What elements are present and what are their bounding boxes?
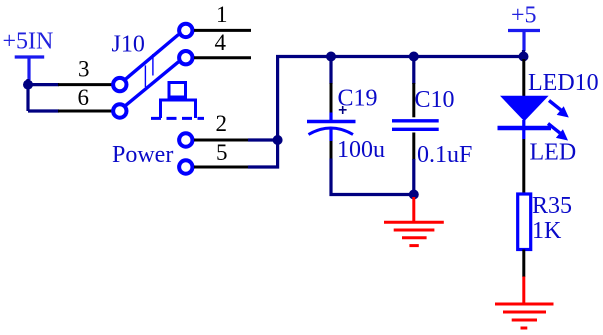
- svg-text:J10: J10: [112, 32, 145, 58]
- power bar symbol +5IN: [15, 57, 45, 80]
- svg-text:C19: C19: [338, 86, 378, 112]
- svg-text:LED: LED: [530, 140, 577, 166]
- switch arm pole B: [126, 62, 179, 106]
- pin 2 circle: [179, 133, 192, 146]
- capacitor C10 top pin: [412, 83, 415, 117]
- wire riser up to rail: [276, 57, 279, 141]
- resistor R35 body: [518, 194, 531, 250]
- capacitor C19 bottom stub: [329, 128, 332, 141]
- capacitor C19 top stub: [329, 113, 332, 121]
- push button cap: [169, 83, 186, 98]
- capacitor C10 plate 1: [392, 119, 439, 122]
- svg-text:100u: 100u: [337, 137, 385, 163]
- wire junction to pin 3: [28, 83, 59, 86]
- wire rail to C10: [412, 59, 415, 84]
- svg-text:+5IN: +5IN: [3, 29, 54, 55]
- svg-text:1K: 1K: [532, 218, 562, 244]
- junction dot C10 top: [409, 52, 419, 62]
- svg-text:1: 1: [216, 2, 228, 27]
- svg-text:2: 2: [216, 111, 228, 136]
- svg-text:+5: +5: [511, 3, 537, 29]
- LED light arrow 1: [557, 106, 569, 117]
- LED cathode stub: [522, 120, 525, 139]
- push button dashed travel line: [151, 117, 204, 120]
- wire to pin 6: [28, 109, 59, 112]
- svg-text:4: 4: [215, 30, 227, 55]
- wire top rail: [276, 55, 524, 58]
- junction dot pin2 node: [273, 135, 283, 145]
- pin 1 lead: [194, 29, 251, 32]
- junction dot at +5IN node: [23, 80, 33, 90]
- svg-text:6: 6: [78, 85, 90, 110]
- wire rail to C19: [329, 59, 332, 84]
- wire capacitor bottoms: [331, 159, 414, 195]
- svg-text:5: 5: [216, 140, 228, 165]
- resistor bottom pin: [522, 250, 525, 278]
- LED anode pin: [522, 59, 525, 97]
- junction dot C19 top: [326, 52, 336, 62]
- switch linkage mark 2: [152, 54, 154, 76]
- wire +5IN stem to junction: [26, 79, 29, 85]
- LED cathode bar: [498, 126, 552, 131]
- svg-text:R35: R35: [532, 193, 572, 219]
- capacitor C19 top pin: [330, 83, 333, 113]
- capacitor C19 curved plate: [309, 128, 354, 135]
- svg-text:3: 3: [78, 57, 90, 82]
- LED triangle: [500, 96, 549, 122]
- pin 2 lead: [194, 139, 249, 142]
- switch linkage mark 1: [144, 65, 146, 87]
- LED cathode pin: [522, 139, 525, 194]
- pin 6 lead: [58, 110, 112, 113]
- capacitor C10 plate 2: [392, 128, 439, 131]
- pin 6 circle: [113, 104, 126, 117]
- wire C10 to ground node: [412, 159, 415, 195]
- svg-text:C10: C10: [415, 87, 455, 113]
- pin 4 circle: [179, 51, 192, 64]
- power bar symbol +5: [508, 31, 540, 52]
- LED light arrow 2: [556, 129, 568, 140]
- ground symbol GND2: [495, 277, 554, 329]
- switch arm pole A: [126, 35, 179, 80]
- ground symbol GND1: [384, 197, 444, 246]
- junction dot ground node: [409, 190, 419, 200]
- junction dot +5 node: [519, 52, 529, 62]
- pin 1 circle: [179, 24, 192, 37]
- pin 3 circle: [113, 78, 126, 91]
- capacitor C19 bottom pin: [330, 141, 333, 160]
- wire pin 2 to riser: [248, 138, 278, 141]
- wire junction down: [26, 85, 29, 111]
- pin 3 lead: [58, 83, 112, 86]
- wire pin 5 to riser: [248, 140, 278, 167]
- pin 4 lead: [194, 56, 251, 59]
- pin 5 circle: [179, 160, 192, 173]
- capacitor C10 bottom pin: [412, 133, 415, 161]
- svg-text:LED10: LED10: [528, 70, 599, 96]
- svg-text:0.1uF: 0.1uF: [417, 142, 472, 168]
- wire +5 stem to rail: [522, 50, 525, 57]
- pin 5 lead: [194, 166, 249, 169]
- push button body: [161, 100, 196, 118]
- polarity plus mark C19: [339, 106, 347, 114]
- capacitor C19 positive plate: [307, 120, 356, 123]
- svg-text:Power: Power: [112, 142, 173, 168]
